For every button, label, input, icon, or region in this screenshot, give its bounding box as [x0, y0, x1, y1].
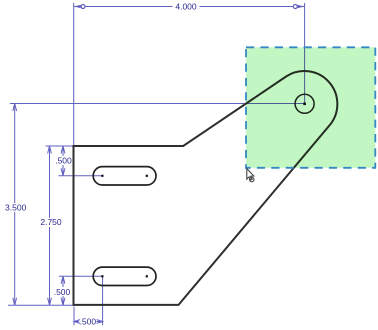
wire: extension line left of 4.000 (vertical at part left edge) — [73, 3, 75, 146]
2.750 up arrow — [48, 146, 52, 154]
lower slot — [93, 267, 156, 285]
upper .500 arrows — [61, 146, 65, 154]
node: lower slot left dot — [101, 275, 103, 277]
svg-text:.500: .500 — [54, 287, 71, 297]
hole circle — [295, 94, 314, 113]
open arrowheads — [13, 104, 103, 324]
selection box dashed border — [246, 47, 375, 168]
wire: long horizontal extension at lug center height — [10, 103, 305, 105]
wire: 2.750 top extension — [46, 145, 74, 147]
upper slot — [93, 167, 156, 185]
wire: lower slot centerline extension — [59, 275, 102, 277]
lower .500 arrows — [61, 276, 65, 284]
wire: extension line right of 4.000 (vertical to lug center) — [304, 3, 306, 104]
wire: upper .500 dimension line — [62, 146, 64, 156]
svg-text:2.750: 2.750 — [40, 217, 62, 227]
bottom .500 arrows — [74, 320, 80, 324]
node: upper slot left dot — [101, 175, 103, 177]
arrows for 4.000 (filled with knob) — [74, 5, 305, 9]
wire: bottom .500 dimension line — [74, 321, 79, 323]
node: lower slot right dot — [146, 275, 148, 277]
wire: bottom .500 right extension (from slot dot) — [102, 276, 104, 325]
wire: upper slot centerline extension — [59, 175, 103, 177]
cursor — [247, 169, 254, 182]
wire: 3.500 dimension line — [14, 104, 16, 204]
wire: bottom .500 left extension — [73, 307, 75, 326]
part outline — [74, 71, 338, 305]
3.500 up arrow — [13, 104, 17, 112]
selection box green fill — [246, 47, 375, 168]
node: lug center dot — [303, 103, 306, 106]
svg-text:4.000: 4.000 — [175, 2, 197, 12]
3.500 down arrow — [13, 298, 17, 306]
2.750 down arrow — [48, 298, 52, 306]
wire: 4.000 dimension line — [74, 6, 173, 8]
wire: lower .500 dimension line — [62, 276, 64, 287]
wire: bottom extension line — [8, 304, 74, 306]
svg-text:.500: .500 — [80, 317, 97, 327]
svg-text:.500: .500 — [55, 156, 72, 166]
node: upper slot right dot — [146, 175, 148, 177]
wire: 2.750 dimension line — [49, 146, 51, 218]
svg-text:3.500: 3.500 — [5, 203, 27, 213]
